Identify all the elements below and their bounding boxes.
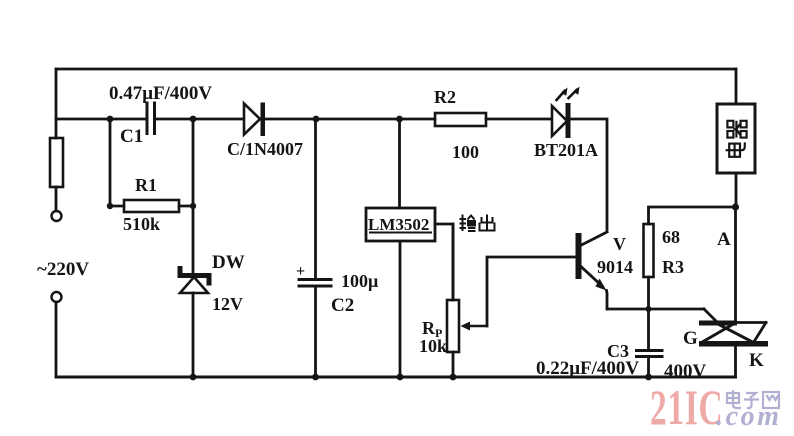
wire branch from node A to R3 [649,207,736,224]
wire lower terminal to bottom rail [55,302,58,377]
svg-text:C1: C1 [120,126,143,147]
wire triac MT2 to bottom rail [734,347,737,378]
transistor V 9014 [576,232,608,309]
wire gate diagonal [704,309,717,322]
fuse FU left vertical box [50,138,63,187]
wire base from wiper [487,257,576,326]
capacitor C1 plates [147,103,155,134]
svg-text:12V: 12V [212,294,243,314]
wire Rp bottom to rail [452,352,455,377]
svg-text:510k: 510k [123,214,160,234]
wire emitter to gate run [607,308,704,311]
potentiometer Rp with wiper arrow [447,224,487,352]
svg-text:R1: R1 [135,175,157,195]
load box dianqi (appliance) [717,69,755,207]
zener diode DW [180,269,209,294]
svg-text:R2: R2 [434,87,456,107]
label dianqi glyphs in load box (rotated) [726,121,747,157]
wire R3 bottom to emitter run [647,277,650,309]
triac VT [699,321,768,347]
wire top rail [56,68,736,71]
wire DW branch vertical from main line [192,119,195,274]
svg-text:21IC: 21IC [650,381,723,436]
svg-text:~220V: ~220V [37,259,89,280]
svg-text:68: 68 [662,227,680,247]
svg-text:C/1N4007: C/1N4007 [227,139,303,159]
LED BT201A [552,87,580,139]
wire LM3502 top feed [398,119,401,208]
svg-text:+: + [296,263,305,280]
capacitor C3 [637,309,663,377]
label shuchu (output) [460,215,495,232]
svg-text:G: G [683,328,698,349]
wire C2 branch vertical [314,119,317,279]
svg-text:.com: .com [716,401,782,432]
svg-text:K: K [749,350,764,371]
wire left drop from top rail through main-line T to fuse [55,69,58,138]
IC U1 LM3502 box [366,208,435,241]
resistor R2 [435,113,486,126]
svg-text:10k: 10k [419,336,447,356]
resistor R1 [110,200,193,212]
wire C1 to diode [155,118,245,121]
wire main horizontal: left segment to C1 [56,118,147,121]
svg-text:C2: C2 [331,295,354,316]
wire zener to bottom rail [192,293,195,377]
svg-text:0.47μF/400V: 0.47μF/400V [109,83,212,104]
resistor R3 [644,224,654,277]
svg-text:100: 100 [452,142,479,162]
svg-text:R3: R3 [662,257,684,277]
svg-text:BT201A: BT201A [534,140,598,160]
wire LM3502 output to Rp top [435,224,453,300]
wire R1 branch left vertical [109,119,112,206]
terminal upper circle [52,211,62,221]
svg-text:100μ: 100μ [341,271,378,291]
svg-text:0.22μF/400V: 0.22μF/400V [536,358,639,379]
wire R2 to LED [486,118,552,121]
wire node A to triac MT1 [734,207,737,321]
wire C2 to bottom rail [314,286,317,377]
capacitor C2 polarized [299,280,331,287]
wire diode to R2 [265,118,435,121]
wire LM3502 bottom to rail [399,241,402,377]
diode C/1N4007 [244,103,265,137]
svg-text:V: V [613,234,626,254]
wire bottom rail [56,376,736,379]
wire fuse to upper plug terminal [55,187,58,211]
watermark dianziwang glyphs [727,390,779,408]
svg-text:LM3502: LM3502 [368,215,429,234]
wire LED to collector corner [571,119,608,231]
svg-text:DW: DW [212,252,245,273]
terminal lower circle [52,292,62,302]
svg-text:9014: 9014 [597,257,633,277]
svg-text:A: A [717,229,731,250]
svg-text:400V: 400V [664,361,707,382]
